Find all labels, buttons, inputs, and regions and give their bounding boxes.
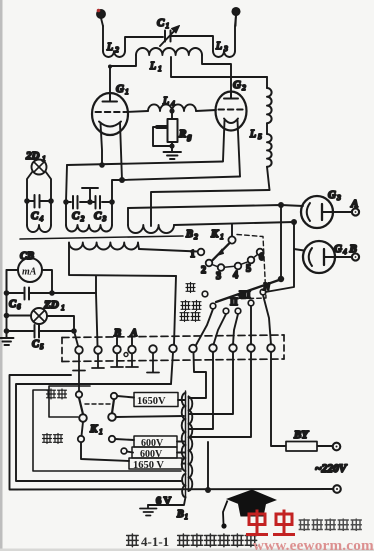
terminal 220V line bbox=[333, 485, 341, 493]
svg-text:G: G bbox=[233, 79, 241, 91]
svg-text:1: 1 bbox=[185, 513, 189, 521]
svg-text:BY: BY bbox=[293, 429, 309, 441]
node C4 right bbox=[48, 198, 54, 204]
wire Rg to ground bbox=[171, 142, 173, 152]
wire chain 3-4 bbox=[224, 266, 234, 267]
wire jack7 to B1 tap bbox=[190, 353, 207, 399]
switch box inner bbox=[49, 386, 90, 417]
wire jack8 to B1 tap bbox=[190, 352, 214, 429]
terminal B bbox=[352, 253, 359, 260]
scan edge bottom bbox=[0, 549, 374, 551]
wire jack11 to fuse bbox=[271, 352, 284, 446]
ground 6V bbox=[140, 505, 157, 516]
capacitor C4 bbox=[27, 195, 51, 208]
wire 2D1 legs bbox=[27, 172, 51, 202]
svg-text:C: C bbox=[9, 299, 17, 310]
svg-text:4: 4 bbox=[343, 247, 347, 256]
svg-text:4-1-1: 4-1-1 bbox=[141, 534, 169, 549]
svg-text:K: K bbox=[89, 423, 98, 435]
voltage box 600V a bbox=[134, 436, 185, 449]
label dakou bbox=[47, 389, 67, 399]
strip jack 10 bbox=[247, 344, 255, 352]
transformer B1 right winding bbox=[189, 396, 193, 491]
wire G3 feed vertical bbox=[280, 205, 282, 279]
label yure bbox=[181, 301, 201, 311]
inductor L5 bbox=[267, 77, 272, 190]
wire mains loop bbox=[10, 375, 333, 490]
terminal 220V fuse bbox=[333, 443, 341, 451]
svg-text:2: 2 bbox=[242, 83, 246, 92]
wire stub jack A bbox=[131, 338, 133, 346]
contact KE bbox=[78, 436, 84, 442]
caption figure number bbox=[127, 534, 139, 547]
rotary switch K1 wiper bbox=[213, 224, 236, 260]
wire meter right bbox=[42, 270, 52, 293]
wire B2 return to strip bbox=[174, 276, 176, 345]
svg-text:1: 1 bbox=[99, 427, 103, 436]
svg-text:N: N bbox=[262, 282, 271, 293]
watermark site name glyphs bbox=[299, 519, 362, 532]
svg-text:C: C bbox=[94, 210, 102, 222]
svg-text:A: A bbox=[130, 328, 138, 339]
strip jack 11 bbox=[267, 344, 275, 352]
strip jack 1 bbox=[75, 346, 83, 354]
watermark graduation cap bbox=[221, 490, 277, 529]
svg-text:1: 1 bbox=[166, 21, 170, 30]
resistor Rg bbox=[168, 119, 178, 142]
node Rg bottom bbox=[169, 143, 174, 148]
capacitor C2 bbox=[66, 196, 87, 209]
node G1 cathode right bbox=[119, 177, 125, 183]
lamp 2D1 bbox=[32, 160, 47, 175]
strip jack 6 bbox=[169, 345, 177, 353]
label guan bbox=[186, 283, 195, 293]
svg-text:C: C bbox=[72, 210, 80, 222]
wire C5 to strip bbox=[74, 331, 78, 346]
antenna terminal T2 bbox=[232, 8, 239, 26]
terminal strip dashed bottom bbox=[62, 359, 284, 362]
wire L1 tap to L5 bbox=[171, 57, 267, 77]
ground below Rg bbox=[164, 152, 182, 159]
svg-text:C: C bbox=[31, 210, 39, 222]
node mode switch pivot bbox=[278, 276, 284, 282]
svg-text:G: G bbox=[116, 83, 124, 95]
wire G4 feed vertical bbox=[294, 222, 304, 251]
rail left vertical bbox=[6, 270, 8, 337]
svg-text:1: 1 bbox=[61, 303, 65, 312]
grid wire G1 to L4 bbox=[126, 111, 148, 112]
capacitor C3 bbox=[93, 196, 112, 209]
inductor L3 bbox=[171, 15, 236, 57]
contact guan bbox=[202, 291, 208, 297]
mode switch wiper arm bbox=[216, 280, 279, 302]
svg-text:6: 6 bbox=[17, 303, 21, 311]
node meter right bbox=[49, 290, 55, 296]
caption title glyphs bbox=[178, 534, 257, 547]
contact 4 bbox=[235, 263, 242, 270]
svg-text:1: 1 bbox=[158, 64, 162, 73]
contact zhiliao bbox=[223, 308, 229, 314]
wire II contact down bbox=[233, 314, 238, 345]
svg-text:2: 2 bbox=[201, 265, 206, 276]
label zhiliao bbox=[180, 312, 200, 322]
wire C to 1650V box bbox=[117, 396, 134, 398]
wire N contact down bbox=[263, 295, 271, 345]
wire D to B1 bbox=[116, 416, 184, 417]
gas tube G4 bbox=[303, 241, 352, 273]
wire chain 4-5 bbox=[241, 262, 248, 265]
wire G3 feed line bbox=[128, 205, 303, 208]
svg-text:G: G bbox=[334, 243, 342, 255]
wire 6V to ground bbox=[148, 497, 186, 505]
plug below jack 5 bbox=[147, 353, 159, 373]
ground left rail bbox=[1, 338, 14, 345]
plug below jack 1 bbox=[73, 354, 85, 391]
svg-text:G: G bbox=[328, 189, 336, 201]
voltage box 600V b bbox=[132, 447, 185, 460]
svg-text:K: K bbox=[210, 228, 219, 240]
plug below jack 3 bbox=[111, 354, 123, 368]
contact KD bbox=[108, 413, 116, 421]
svg-text:C: C bbox=[157, 17, 165, 29]
voltage box 1650V top bbox=[134, 393, 185, 408]
terminal strip dashed left bbox=[61, 338, 63, 362]
antenna stub above C2-C3 bbox=[82, 188, 98, 202]
wire corner down to strip bbox=[96, 293, 98, 346]
gas tube G3 bbox=[301, 196, 352, 228]
capacitor C6 bbox=[7, 288, 53, 300]
node rail C6 bbox=[4, 290, 10, 296]
node C2 left bbox=[63, 199, 69, 205]
wire corner up to B2 return bbox=[95, 277, 97, 294]
svg-text:C: C bbox=[32, 339, 40, 350]
wire yure contact down bbox=[196, 309, 213, 345]
svg-text:L: L bbox=[106, 41, 113, 53]
wire Rg bypass tap bbox=[153, 127, 172, 146]
wire chain 2-3 bbox=[212, 265, 218, 267]
plug below jack 2 bbox=[92, 354, 104, 368]
dashed gang frame K1 bbox=[232, 235, 266, 300]
wire filament line 1 bbox=[67, 162, 223, 166]
node C3 right bbox=[109, 199, 115, 205]
wire L5 bottom to B2 bbox=[151, 190, 270, 226]
svg-text:6 V: 6 V bbox=[156, 496, 172, 507]
inductor L2 bbox=[103, 26, 163, 57]
watermark chongchong red glyphs bbox=[246, 510, 295, 535]
svg-text:www.eeworm.com: www.eeworm.com bbox=[253, 537, 374, 551]
svg-text:III: III bbox=[239, 290, 251, 301]
switch box outer bbox=[33, 390, 181, 471]
wire G1 plate bbox=[109, 66, 111, 94]
switch arm A-B bbox=[79, 398, 83, 415]
terminal A bbox=[352, 208, 359, 215]
svg-text:4: 4 bbox=[171, 99, 175, 108]
contact 1 bbox=[198, 249, 205, 256]
svg-text:2: 2 bbox=[115, 45, 119, 54]
svg-text:3: 3 bbox=[223, 44, 228, 53]
svg-text:1: 1 bbox=[220, 232, 224, 241]
contact N bbox=[260, 289, 266, 295]
svg-text:5: 5 bbox=[258, 132, 262, 141]
contact 3 bbox=[218, 264, 225, 271]
contact III bbox=[248, 300, 254, 306]
wire B1 bottom bbox=[188, 490, 190, 491]
svg-text:4: 4 bbox=[40, 214, 44, 223]
wire filament line 1 left drop bbox=[66, 165, 67, 202]
svg-text:L: L bbox=[162, 95, 169, 107]
wire B2 primary feed bbox=[127, 208, 129, 225]
contact 2 bbox=[206, 260, 213, 267]
contact II bbox=[235, 308, 241, 314]
wire stub jack B bbox=[116, 338, 118, 346]
transformer B1 left winding bbox=[182, 391, 186, 497]
wire B2 secondary to contact 1 bbox=[139, 249, 198, 252]
svg-text:3: 3 bbox=[336, 193, 341, 202]
label xiaokou bbox=[43, 434, 63, 444]
capacitor C5 bbox=[7, 325, 75, 338]
node C5 right bbox=[71, 328, 77, 334]
plug below jack 4 bbox=[126, 354, 138, 368]
svg-text:2: 2 bbox=[194, 232, 198, 241]
svg-text:~220V: ~220V bbox=[315, 463, 348, 475]
svg-text:B: B bbox=[349, 243, 357, 255]
switch arm C-D bbox=[112, 399, 114, 413]
lamp ZD1 bbox=[31, 308, 47, 324]
wire jack9 to B1 tap bbox=[190, 352, 234, 414]
svg-text:A: A bbox=[350, 198, 358, 210]
voltage box 1650V bottom bbox=[129, 458, 185, 471]
wire chain 5-6 bbox=[254, 255, 258, 258]
dashed gang K1 lower bbox=[85, 403, 110, 405]
grid wire L4 to G2 bbox=[196, 110, 216, 111]
transformer B2 primary coil bbox=[128, 225, 174, 233]
wire III contact down bbox=[250, 306, 252, 345]
contact KF bbox=[109, 436, 115, 442]
strip jack 2 bbox=[94, 346, 102, 354]
contact KC bbox=[111, 393, 117, 399]
svg-text:5: 5 bbox=[246, 264, 251, 275]
strip jack 8 bbox=[209, 344, 217, 352]
svg-text:1: 1 bbox=[42, 154, 46, 163]
contact yure bbox=[210, 303, 216, 309]
transformer B2 secondary coil bbox=[69, 243, 176, 277]
node C2-C3 junction bbox=[87, 199, 93, 205]
triode G1 bbox=[92, 93, 128, 180]
scan edge left bbox=[0, 0, 3, 551]
svg-text:II: II bbox=[230, 297, 238, 308]
svg-text:R: R bbox=[178, 128, 186, 140]
wire outer loop bbox=[16, 384, 181, 481]
wire filament line 2 bbox=[122, 177, 240, 181]
wire ZD1 left bbox=[7, 315, 32, 317]
variable capacitor C1 bbox=[160, 26, 180, 47]
coil under C2 C3 bbox=[66, 202, 112, 232]
svg-text:5: 5 bbox=[40, 343, 44, 351]
svg-text:L: L bbox=[149, 60, 156, 72]
strip jack 3 bbox=[113, 346, 121, 354]
fuse BY bbox=[284, 442, 333, 452]
node G3 feed bbox=[278, 202, 284, 208]
svg-text:L: L bbox=[215, 40, 222, 52]
wire C6 row to corner bbox=[52, 292, 96, 294]
strip jack 9 bbox=[229, 344, 237, 352]
svg-text:mA: mA bbox=[22, 267, 37, 278]
antenna terminal T1 bbox=[97, 9, 105, 26]
svg-text:1650V: 1650V bbox=[137, 396, 166, 407]
svg-text:3: 3 bbox=[216, 271, 221, 282]
contact KB bbox=[79, 414, 87, 422]
wire meter left bbox=[7, 270, 19, 293]
svg-text:2: 2 bbox=[81, 214, 85, 223]
wire jack10 to B1 tap bbox=[190, 352, 252, 437]
terminal strip dashed top bbox=[62, 335, 284, 338]
node L1 corner bbox=[108, 65, 112, 69]
svg-text:CB: CB bbox=[20, 251, 34, 262]
wire jack6 to outer loop bbox=[171, 353, 173, 385]
svg-text:g: g bbox=[187, 132, 192, 141]
svg-text:B: B bbox=[185, 229, 193, 240]
svg-text:1: 1 bbox=[190, 249, 195, 260]
wire x208 stub bbox=[207, 442, 209, 489]
strip jack 4 bbox=[128, 346, 136, 354]
node B1 bottom bbox=[205, 487, 211, 493]
svg-text:ZD: ZD bbox=[43, 299, 59, 311]
wire ZD1 right bbox=[47, 316, 74, 331]
wire E to 1650V bottom bbox=[81, 442, 129, 461]
contact KG bbox=[121, 448, 127, 454]
coil under C4 bbox=[27, 201, 51, 232]
contact 6 bbox=[257, 249, 264, 256]
strip jack 5 bbox=[149, 345, 157, 353]
strip jack 7 bbox=[189, 345, 197, 353]
node G1 cathode left bbox=[99, 162, 105, 168]
wire zhiliao contact down bbox=[214, 314, 227, 345]
wire primary to G4 line bbox=[174, 222, 294, 225]
terminal strip dashed right bbox=[283, 335, 285, 359]
node rail ZD1 bbox=[4, 313, 10, 319]
svg-text:B: B bbox=[176, 509, 184, 520]
contact 5 bbox=[248, 257, 255, 264]
wire F to 600V box bbox=[115, 439, 134, 440]
wire tap to Rg bbox=[171, 111, 173, 119]
svg-text:4: 4 bbox=[233, 270, 238, 281]
contact KA bbox=[76, 391, 82, 397]
node C4 left bbox=[24, 198, 30, 204]
wire G4 line to N contact bbox=[266, 249, 295, 292]
svg-text:1650 V: 1650 V bbox=[133, 460, 164, 471]
svg-text:1: 1 bbox=[125, 87, 129, 96]
inductor L1 bbox=[110, 48, 231, 91]
node G4 feed bbox=[291, 219, 297, 225]
wire G to 600V box bbox=[127, 452, 133, 453]
svg-text:L: L bbox=[249, 128, 256, 140]
svg-text:3: 3 bbox=[102, 214, 107, 223]
triode G2 bbox=[216, 92, 247, 177]
wire jog to C3 bbox=[112, 180, 122, 202]
node rail C5 bbox=[4, 328, 10, 334]
node L4 tap bbox=[169, 108, 174, 113]
svg-text:2D: 2D bbox=[25, 150, 40, 162]
meter CB bbox=[18, 258, 42, 282]
wire B to E bbox=[82, 422, 84, 436]
strip marker small bbox=[124, 353, 128, 357]
transformer B2 core line bbox=[20, 236, 183, 239]
inductor L4 bbox=[148, 104, 196, 111]
